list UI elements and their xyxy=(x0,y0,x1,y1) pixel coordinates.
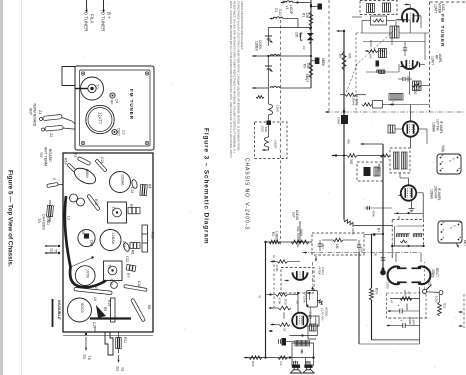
svg-text:S1: S1 xyxy=(427,281,431,285)
antenna terminal Z1 xyxy=(43,114,62,120)
IF can coil B xyxy=(383,3,391,12)
V1A drop to y33 xyxy=(409,21,411,33)
svg-text:R13: R13 xyxy=(94,199,98,205)
svg-text:VOL CONTROL: VOL CONTROL xyxy=(296,226,300,248)
svg-text:LOOP: LOOP xyxy=(289,5,293,14)
resistor R7 chassis view xyxy=(126,264,136,271)
resistor R23 on bottom bus xyxy=(278,356,288,360)
svg-text:12BE6: 12BE6 xyxy=(255,41,259,51)
corner resistor into detector xyxy=(344,220,355,227)
resistor and box on y104 row xyxy=(362,103,372,106)
black capacitor C6 on bus xyxy=(315,58,320,65)
tube 12BA6 top view first xyxy=(110,172,131,193)
resistor R43 ant lead xyxy=(47,205,54,216)
FM tuner dashed outline schematic xyxy=(429,2,431,112)
svg-text:117V. 60~: 117V. 60~ xyxy=(321,308,325,322)
arrow TO T8 bottom left xyxy=(85,333,87,335)
cap right in tone box xyxy=(357,245,361,247)
resistor R13 chassis view xyxy=(87,194,101,211)
trimmer C5 symbol xyxy=(265,65,272,67)
gang dashed line xyxy=(280,20,282,245)
svg-text:C17: C17 xyxy=(92,322,96,328)
pointer wire to T4 xyxy=(71,258,93,268)
detector comb winding left xyxy=(397,234,410,237)
svg-text:TO TUNER: TO TUNER xyxy=(84,9,89,31)
svg-text:12BA6: 12BA6 xyxy=(111,233,115,244)
svg-text:220K: 220K xyxy=(282,312,286,319)
junction dots on AVC bus xyxy=(343,111,345,113)
svg-text:RF: RF xyxy=(434,55,438,59)
wire bottom bus y357 xyxy=(244,357,314,359)
svg-text:R6: R6 xyxy=(131,250,135,254)
tube 19T8 top view xyxy=(75,266,95,286)
corner screw top-right xyxy=(145,72,148,75)
svg-text:T5: T5 xyxy=(54,249,58,253)
svg-text:R11: R11 xyxy=(123,337,127,343)
dashed IF can top xyxy=(360,1,397,15)
dashed segment x274 xyxy=(273,255,275,310)
cap pair on wire x383 xyxy=(381,258,386,260)
corner screw top-left xyxy=(81,72,84,75)
svg-text:5-25: 5-25 xyxy=(441,147,445,153)
svg-text:C15: C15 xyxy=(130,187,134,193)
electrolytic cap black on bus xyxy=(341,115,348,124)
FM tuner chassis enclosure xyxy=(75,66,154,150)
oscillator coil bumps y88 xyxy=(270,86,280,88)
svg-text:C1: C1 xyxy=(274,8,278,12)
socket view box 2 xyxy=(438,221,462,243)
terminal strip dark bar xyxy=(90,317,131,319)
right rail x419 xyxy=(419,287,421,344)
resistor R8 chassis view angled xyxy=(131,298,146,322)
trimmer C4 RF xyxy=(110,93,115,98)
tube V7 half envelope xyxy=(418,267,430,285)
svg-text:12AT7: 12AT7 xyxy=(431,56,435,66)
arrow TO T5 bottom right xyxy=(118,355,120,361)
svg-text:R4: R4 xyxy=(148,184,152,188)
svg-text:R7: R7 xyxy=(126,273,130,277)
svg-text:R3: R3 xyxy=(303,64,307,68)
resistor horizontal y95 xyxy=(340,94,345,96)
svg-text:1M: 1M xyxy=(335,244,339,249)
wire row y298 xyxy=(390,298,420,300)
svg-text:TO: TO xyxy=(39,152,43,157)
wire mesh tuner mid xyxy=(362,32,392,34)
svg-text:22K: 22K xyxy=(305,13,309,20)
black cap junction on loop wire xyxy=(268,115,270,122)
loop arrow terminal xyxy=(264,147,269,150)
svg-text:6BE6: 6BE6 xyxy=(321,58,325,66)
resistor R15 chassis bar long xyxy=(74,287,112,294)
black capacitor C6 top xyxy=(318,4,323,10)
wire 50C5 top to y335 xyxy=(298,312,318,314)
svg-text:1ST FM: 1ST FM xyxy=(435,119,439,131)
svg-text:FM TUNER: FM TUNER xyxy=(129,89,134,120)
trimmer C7 OSC xyxy=(112,129,117,134)
svg-text:CHASSIS NO. V-2400-3: CHASSIS NO. V-2400-3 xyxy=(244,158,250,230)
svg-text:3.2: 3.2 xyxy=(279,361,283,366)
svg-text:.004: .004 xyxy=(360,247,364,253)
filter cap C19 40MF xyxy=(400,309,402,314)
svg-text:AMPL: AMPL xyxy=(438,54,442,63)
resistor R11 below chassis xyxy=(116,338,122,349)
wire row y144 arrow xyxy=(362,143,365,145)
svg-text:B+: B+ xyxy=(377,228,381,232)
svg-text:L6: L6 xyxy=(93,297,97,301)
svg-text:TERM BOARD: TERM BOARD xyxy=(33,103,37,127)
svg-text:R16: R16 xyxy=(151,232,155,238)
svg-text:L3: L3 xyxy=(67,216,71,220)
svg-text:C6: C6 xyxy=(81,230,85,234)
svg-text:1200: 1200 xyxy=(386,282,390,289)
svg-text:R14: R14 xyxy=(64,158,68,165)
AGC dash-dot line y112 xyxy=(325,111,466,113)
resistor R19 chassis view xyxy=(111,298,116,322)
filter resistor R24 vertical xyxy=(370,288,374,300)
svg-text:OSC.: OSC. xyxy=(441,4,445,12)
svg-text:R9: R9 xyxy=(338,54,342,58)
power transformer T7 outline xyxy=(307,291,318,308)
svg-text:150K: 150K xyxy=(303,296,307,303)
wire x298 down to 50C5 xyxy=(297,293,299,313)
svg-text:C8A: C8A xyxy=(90,240,94,247)
svg-text:C14: C14 xyxy=(122,241,126,247)
capacitor pair right of V1B xyxy=(403,77,405,81)
svg-text:FILA: FILA xyxy=(90,14,95,23)
junction B+ node xyxy=(373,233,376,236)
transformer T2 top view xyxy=(81,77,104,100)
svg-text:R2: R2 xyxy=(271,232,275,236)
grid resistor y261 xyxy=(277,260,288,263)
cluster box below IF can xyxy=(371,16,387,25)
svg-text:390: 390 xyxy=(347,139,351,144)
svg-text:L10: L10 xyxy=(391,101,395,106)
resistor 100 tuner bottom xyxy=(412,84,421,87)
IF can dashed mid right xyxy=(357,162,383,181)
coil L2 ant second xyxy=(273,17,283,19)
resistor R21 vertical right xyxy=(438,302,442,316)
main chassis outline xyxy=(63,153,153,332)
svg-text:6BQ7: 6BQ7 xyxy=(305,74,309,82)
arrow B+ TO TUNER xyxy=(103,0,105,6)
svg-text:IF AMP: IF AMP xyxy=(355,95,359,105)
svg-text:C10: C10 xyxy=(110,279,114,285)
svg-text:L1: L1 xyxy=(285,6,289,10)
arrow FILA TO TUNER xyxy=(86,0,88,6)
output transformer T6 comb winding xyxy=(295,340,311,346)
wire y242 left section xyxy=(266,241,313,243)
wire ant row y18 xyxy=(283,18,298,20)
hatched coil mid tuner xyxy=(379,49,387,58)
resistor R6 chassis view xyxy=(130,243,140,249)
wire row y56 xyxy=(310,55,312,57)
IF can winding A xyxy=(394,152,400,169)
svg-text:TO TUNER: TO TUNER xyxy=(101,9,106,31)
svg-text:CAPACITANCE VALUES LESS THAN 1: CAPACITANCE VALUES LESS THAN 1 IN MF AND… xyxy=(236,1,240,151)
capacitor C14 chassis view xyxy=(123,242,131,252)
loop coil upper xyxy=(269,104,273,115)
terminal arrow at top of AVC bus xyxy=(338,30,342,32)
ground below V3 xyxy=(409,206,415,212)
resistor in tone box xyxy=(333,238,343,241)
svg-text:C22: C22 xyxy=(125,256,129,262)
svg-text:.05: .05 xyxy=(283,328,287,332)
resistor left y155 xyxy=(380,154,390,157)
triode V1B 12AT7 RF half envelope xyxy=(402,61,418,69)
hatched winding in IF can xyxy=(374,167,380,176)
antenna terminal Z2 xyxy=(45,125,63,131)
resistor R9 on AVC bus xyxy=(342,52,346,70)
resistor R4 chassis view xyxy=(140,184,147,196)
electrolytic C8A with polarity square xyxy=(78,229,95,246)
svg-text:C7: C7 xyxy=(121,130,125,135)
svg-text:150V: 150V xyxy=(412,318,416,326)
detector internals xyxy=(394,226,396,246)
svg-text:ANT. TERM: ANT. TERM xyxy=(44,147,48,166)
svg-text:12BA6: 12BA6 xyxy=(352,96,356,106)
resistor row y51 with arrow xyxy=(367,50,369,52)
capacitor C3 bracket xyxy=(301,33,303,40)
IF transformer T4 top view xyxy=(104,261,123,281)
svg-text:IF AMPL: IF AMPL xyxy=(439,121,443,134)
svg-text:47: 47 xyxy=(407,291,411,295)
volume control resistor horizontal xyxy=(291,240,309,244)
svg-text:R30: R30 xyxy=(284,299,288,305)
IF can dashed below V2 xyxy=(390,148,410,173)
capacitor C16 chassis bar xyxy=(124,285,147,292)
svg-text:10MF: 10MF xyxy=(337,117,341,125)
V1A leads xyxy=(406,4,409,6)
tuner wires right xyxy=(399,32,429,34)
resistor R16 chassis view long xyxy=(142,225,148,252)
striped box right tuner xyxy=(413,81,422,91)
svg-text:R1: R1 xyxy=(302,13,306,17)
V1B leads xyxy=(402,65,404,67)
tube V3 12BA6 2nd FM IF xyxy=(401,185,416,200)
pilot lamp dashed right edge xyxy=(463,294,465,328)
junction black node x383 y269 xyxy=(382,268,385,271)
arrow left y331 xyxy=(270,330,273,332)
arrows TO T5 from chassis left xyxy=(58,245,60,247)
loop coil inside box xyxy=(268,125,270,137)
svg-text:IF AMPL: IF AMPL xyxy=(437,188,441,201)
socket view box 1 xyxy=(437,154,461,174)
vertical bus x311 top xyxy=(310,0,312,88)
wire row y155 with resistor xyxy=(333,155,336,157)
svg-text:RF: RF xyxy=(110,100,114,106)
svg-text:FM TUNER: FM TUNER xyxy=(439,14,445,48)
svg-text:R21: R21 xyxy=(443,303,447,309)
capacitor C15 chassis view xyxy=(131,179,138,189)
svg-text:(YEL): (YEL) xyxy=(321,267,325,275)
svg-text:19T8: 19T8 xyxy=(86,269,90,278)
B+ vertical wire x371 xyxy=(371,234,373,288)
heater drop wires xyxy=(395,253,397,263)
wire y208 to detector ground xyxy=(364,207,392,209)
svg-text:BOARD: BOARD xyxy=(48,149,52,162)
long vertical wire AVC bus x344 xyxy=(343,31,345,220)
svg-text:R22: R22 xyxy=(251,361,255,367)
small striped box right of 50C5 xyxy=(310,324,317,331)
svg-text:C3: C3 xyxy=(298,33,302,37)
IF can coil A xyxy=(367,4,375,13)
detector comb winding right xyxy=(413,234,422,237)
triode V1A 12AT7 mixer half envelope xyxy=(402,9,418,22)
FM RF section inner dashed boundary xyxy=(355,33,357,112)
svg-text:R8: R8 xyxy=(147,305,151,309)
wire x309 down xyxy=(309,293,311,300)
speaker SP2 xyxy=(302,361,314,373)
electrolytic C9 chassis view xyxy=(70,194,78,202)
tuning gang trimmer C2 xyxy=(265,35,272,37)
svg-text:T8: T8 xyxy=(87,356,91,360)
svg-text:470K: 470K xyxy=(372,210,376,217)
svg-text:35W4: 35W4 xyxy=(431,269,435,278)
svg-text:OSC: OSC xyxy=(117,128,121,136)
IF transformer T3 top view xyxy=(108,202,127,223)
tube 12BA6 top view second xyxy=(100,230,121,251)
svg-text:12BA6: 12BA6 xyxy=(430,189,434,199)
resistor R2 1M xyxy=(269,240,280,244)
svg-text:Figure 5 — Top View of Chassis: Figure 5 — Top View of Chassis. xyxy=(7,170,14,267)
cap left in tone box xyxy=(318,244,322,246)
grid row y261 arrow xyxy=(272,261,275,263)
svg-text:12BA6: 12BA6 xyxy=(121,174,125,185)
svg-text:12AT7: 12AT7 xyxy=(98,112,103,125)
wire y339 bottom right xyxy=(372,339,420,341)
svg-text:B +: B + xyxy=(107,12,112,19)
comb hatch bottom tuner xyxy=(389,94,403,101)
cathode row y294 xyxy=(269,293,271,295)
coil L6 chassis view xyxy=(96,305,106,318)
svg-text:.004: .004 xyxy=(321,243,325,249)
svg-text:100: 100 xyxy=(264,127,268,132)
osc section dashed divider xyxy=(328,0,330,112)
svg-text:R15: R15 xyxy=(94,284,98,290)
speaker SP1 xyxy=(290,361,302,373)
wire row y17 left of cluster xyxy=(352,16,362,18)
tuning shaft bracket below chassis xyxy=(105,332,113,355)
filter dashed box xyxy=(387,293,427,318)
svg-text:ABOVE PRODUCTION AND CHANGES.: ABOVE PRODUCTION AND CHANGES. xyxy=(240,1,244,50)
AF triode dashed box xyxy=(281,268,314,294)
wire top right of loop xyxy=(293,2,311,4)
svg-text:C4: C4 xyxy=(115,99,119,104)
resistor R25 y298 xyxy=(400,297,412,301)
svg-text:INVISIBLE: INVISIBLE xyxy=(57,300,62,320)
tube 6AB4 top view xyxy=(72,165,98,187)
wires from Z1 Z2 to tuner box xyxy=(62,118,75,125)
wire ant row y27 xyxy=(268,27,311,29)
V1B drop to y94 xyxy=(409,72,411,95)
resistor R3 vertical x311 xyxy=(309,62,313,78)
wires V3 xyxy=(408,178,410,185)
dashed row y318 xyxy=(388,317,430,319)
power cord wires xyxy=(308,326,316,339)
svg-text:.05: .05 xyxy=(374,252,378,256)
svg-text:TO: TO xyxy=(37,218,41,223)
black blob cap xyxy=(376,61,380,67)
svg-text:C21: C21 xyxy=(100,157,104,164)
arrow right socket 2 xyxy=(457,244,459,247)
svg-text:Z2: Z2 xyxy=(49,133,53,137)
svg-text:47: 47 xyxy=(390,300,394,304)
svg-text:12BA6: 12BA6 xyxy=(432,122,436,132)
svg-text:M0: M0 xyxy=(300,350,304,354)
resistor R5 chassis view xyxy=(128,207,140,214)
svg-text:10K: 10K xyxy=(306,63,310,70)
loop antenna dashed box xyxy=(255,122,288,159)
capacitor C2 ant lead horizontal xyxy=(47,182,59,187)
svg-text:40MF: 40MF xyxy=(408,317,412,325)
vertical wire x359 from tone box xyxy=(358,252,360,344)
svg-text:470K: 470K xyxy=(275,265,279,272)
svg-text:Figure 3 – Schematic Diagram: Figure 3 – Schematic Diagram xyxy=(203,128,210,244)
svg-text:47K: 47K xyxy=(348,53,352,60)
resistor R1 vertical top xyxy=(309,12,313,26)
wire from vol to AF row xyxy=(299,221,301,242)
voice coil loop top wires xyxy=(292,343,295,347)
coil hatched left of V2 xyxy=(388,125,395,133)
tone network dashed box xyxy=(312,233,364,255)
svg-text:X1: X1 xyxy=(74,153,78,157)
svg-text:.02: .02 xyxy=(296,300,300,304)
wire row y88 xyxy=(252,87,268,89)
svg-text:NOTE: VOLTAGES MEASURED WITH A: NOTE: VOLTAGES MEASURED WITH A VTVM FROM… xyxy=(229,1,233,158)
black winding in IF can xyxy=(364,167,371,176)
svg-text:50C5: 50C5 xyxy=(80,303,85,313)
cathode resistor y294 xyxy=(276,293,288,296)
heater string dash-dot line xyxy=(302,252,421,254)
tube V5 50C5 output audio xyxy=(292,313,308,329)
svg-text:TO: TO xyxy=(49,248,53,253)
tube V6 35W4 half envelope xyxy=(388,267,400,285)
wiring harness cable thick xyxy=(65,196,106,287)
svg-text:R24: R24 xyxy=(375,288,379,294)
svg-text:RECT.: RECT. xyxy=(435,268,439,278)
bottom wire y344 xyxy=(359,343,420,345)
IF can winding B xyxy=(402,152,408,169)
resistor R22 on bottom bus xyxy=(249,356,262,360)
comb winding small xyxy=(377,70,385,73)
capacitor C10 chassis view xyxy=(111,282,118,289)
svg-text:455KC: 455KC xyxy=(377,163,381,172)
capacitor C21 chassis view xyxy=(95,159,107,172)
svg-text:12AT7: 12AT7 xyxy=(434,4,438,14)
svg-text:3-10: 3-10 xyxy=(278,9,282,16)
svg-text:+470K: +470K xyxy=(318,266,322,275)
tuner coil hatched L1 xyxy=(390,26,399,38)
long vertical wire B- x265 xyxy=(265,242,267,358)
corner screw bottom-right xyxy=(145,141,148,144)
svg-text:R5: R5 xyxy=(129,204,133,208)
svg-text:1 MEG: 1 MEG xyxy=(275,231,279,241)
tube V2 12BA6 FM IF xyxy=(403,121,418,136)
svg-text:Z1: Z1 xyxy=(38,110,42,114)
svg-text:2200: 2200 xyxy=(351,228,355,235)
diode X2 crystal bowtie xyxy=(307,33,314,37)
ratio detector dashed can xyxy=(392,220,423,247)
svg-text:1000: 1000 xyxy=(435,296,439,303)
voice coil loop vertical wires xyxy=(291,347,293,358)
loop antenna coil L1 top xyxy=(283,1,293,3)
svg-text:.01: .01 xyxy=(397,216,401,220)
triode V4A 19T8 AF half envelope xyxy=(293,272,308,280)
svg-text:AUDIO: AUDIO xyxy=(295,210,299,221)
svg-text:1ST: 1ST xyxy=(292,212,296,218)
svg-text:GND.: GND. xyxy=(46,217,50,226)
svg-text:CONV: CONV xyxy=(258,40,262,50)
